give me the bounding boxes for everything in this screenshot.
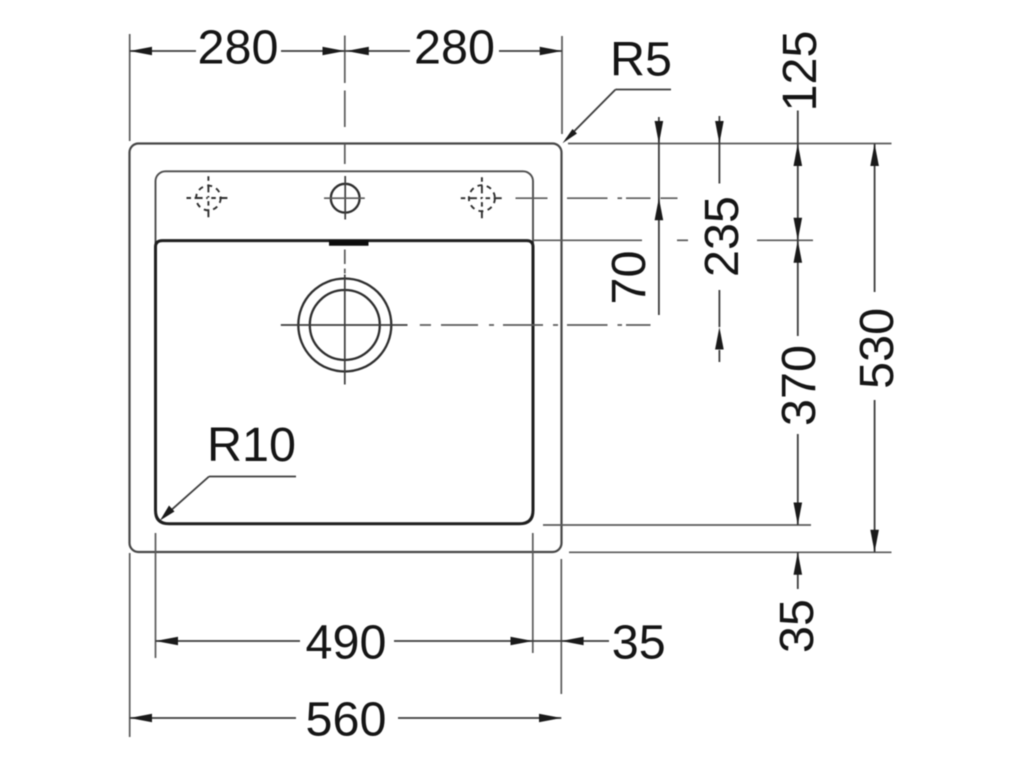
dimension 125 (vertical, arrows inside, text above) [773,31,827,241]
svg-text:280: 280 [414,21,495,75]
bottom dimension extension lines [130,533,562,737]
vertical centerline (dash-dot) below top dimension [344,91,346,274]
dimension 490 (bottom, arrows inside) [156,616,533,670]
right faucet hole (dashed target) [461,177,504,219]
R10 label and leader [160,418,296,521]
drain crosshair [281,275,408,385]
dimension 370 (vertical, arrows inside) [772,240,826,525]
svg-text:35: 35 [612,616,666,670]
sink bottom edge extension [569,551,892,553]
dimension 560 (bottom, arrows inside) [130,693,562,747]
bowl top edge extension [533,239,642,241]
svg-text:R10: R10 [207,418,296,472]
sink top edge extension [568,143,892,145]
right-side horizontal extension lines [533,144,892,553]
svg-text:R5: R5 [610,33,672,87]
dimension 35 (bottom horizontal, arrow outside) [533,616,666,670]
drain centerline (dash-dot) extending right [420,324,651,326]
drain inner circle [310,290,380,360]
R5 label and leader [563,33,673,144]
left faucet hole (dashed target) [187,176,232,219]
bowl outline (thick, R10 bottom corners) [156,241,534,524]
center faucet hole (solid circle with crosshair) [324,176,365,220]
svg-text:280: 280 [198,21,279,75]
dimension 530 (vertical, arrows inside) [850,144,904,553]
dimension 70 (vertical, arrows outside) [602,117,663,315]
outer sink outline 560x530 [130,144,562,553]
svg-text:70: 70 [602,251,656,305]
svg-text:35: 35 [770,599,824,653]
drain outer circle [298,279,391,372]
dimension 235 (vertical, arrows outside) [695,116,749,362]
faucet centerline (dash-dot) extending right [516,197,678,199]
svg-text:490: 490 [306,616,387,670]
svg-text:235: 235 [695,196,749,277]
inner rim line [156,171,534,523]
dimension 280 (right) [345,21,562,75]
top dimension extension lines [130,34,562,141]
overflow slot mark on bowl top edge [329,240,369,246]
svg-text:560: 560 [306,693,387,747]
bowl bottom edge extension [543,524,811,526]
dimension 280 (left) [130,21,345,75]
dimension 35 (vertical right, arrow outside, text below) [770,552,824,653]
svg-text:125: 125 [773,31,827,112]
svg-text:530: 530 [850,308,904,389]
svg-text:370: 370 [772,345,826,426]
